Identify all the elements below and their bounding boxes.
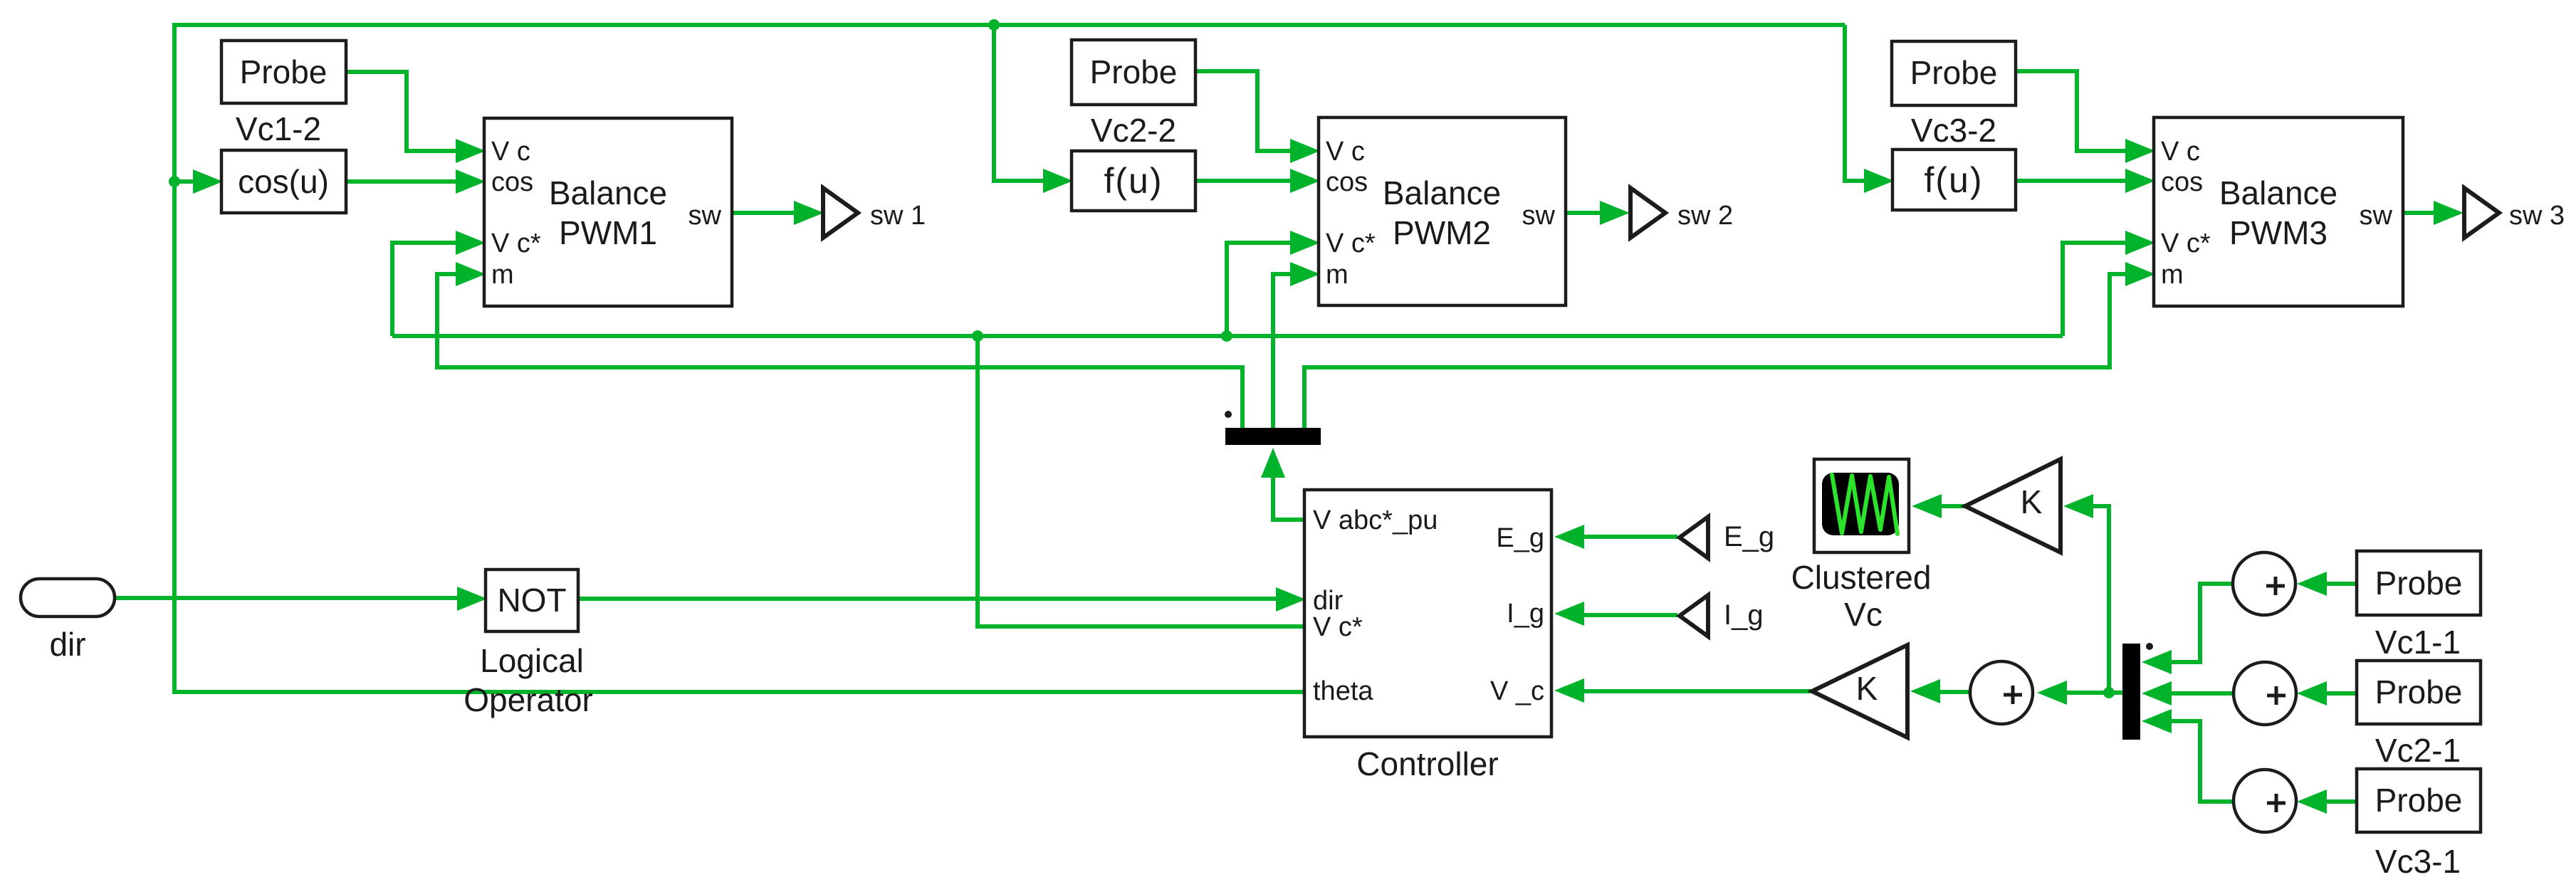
wire Probe Vc1-1 to sum1 — [2323, 582, 2357, 586]
wire K gain to controller V_c — [1581, 689, 1812, 693]
svg-text:f(u): f(u) — [1104, 161, 1163, 201]
wire m net from demux to PWM2 m — [1273, 274, 1294, 428]
probe P3 (Vc3-2) — [1892, 41, 2016, 105]
svg-text:cos(u): cos(u) — [238, 163, 329, 200]
wire theta branch to cos(u) Vc1-2 — [174, 179, 198, 184]
svg-text:Vc3-2: Vc3-2 — [1911, 112, 1996, 149]
wire Vc* net from controller to PWM1/PWM2/PWM3 — [392, 336, 2063, 626]
svg-text:I_g: I_g — [1724, 599, 1764, 631]
svg-text:Vc1-2: Vc1-2 — [236, 110, 321, 147]
svg-text:Vc3-1: Vc3-1 — [2375, 843, 2461, 880]
svg-text:Logical: Logical — [480, 642, 584, 679]
wire Probe Vc2-1 to sum2 — [2323, 691, 2357, 696]
function block f(u)3 — [1892, 149, 2016, 210]
svg-text:V c*: V c* — [2161, 229, 2211, 258]
svg-text:sw 1: sw 1 — [870, 201, 926, 231]
subsystem Controller — [1304, 490, 1551, 737]
svg-text:cos: cos — [2161, 167, 2203, 197]
svg-text:E_g: E_g — [1724, 521, 1774, 552]
wire theta branch to f(u) Vc2-2 — [994, 25, 1047, 181]
node junction Vc* bus / controller drop — [972, 330, 983, 342]
wire Probe Vc3-2 to PWM3 Vc — [2016, 71, 2129, 151]
svg-text:I_g: I_g — [1507, 599, 1544, 629]
input port E_g — [1680, 517, 1708, 558]
input port I_g — [1680, 595, 1708, 636]
scope Clustered Vc — [1814, 459, 1909, 552]
svg-text:Probe: Probe — [2375, 673, 2463, 710]
node junction Vc* bus / PWM2 riser — [1221, 330, 1232, 342]
svg-text:Probe: Probe — [2375, 782, 2463, 819]
node junction theta/f(u)2 — [988, 19, 1000, 31]
svg-text:Probe: Probe — [240, 53, 328, 90]
wire Probe Vc3-1 to sum3 — [2323, 799, 2357, 804]
probe P4 (Vc1-1) — [2357, 551, 2481, 615]
svg-text:NOT: NOT — [497, 582, 566, 619]
svg-text:cos: cos — [1326, 167, 1368, 197]
svg-text:sw 2: sw 2 — [1677, 201, 1733, 231]
svg-text:V c: V c — [2161, 137, 2200, 167]
wire cos(u) to PWM1 cos — [346, 179, 459, 184]
svg-text:f(u): f(u) — [1925, 160, 1984, 200]
function block cos(u) — [221, 150, 346, 213]
svg-text:sw 3: sw 3 — [2509, 201, 2565, 231]
subsystem Balance PWM2 — [1319, 117, 1566, 305]
svg-text:cos: cos — [491, 167, 533, 197]
svg-text:theta: theta — [1313, 676, 1373, 706]
wire PWM3 sw output to sw3 — [2403, 211, 2437, 215]
svg-text:V c: V c — [1326, 137, 1365, 167]
svg-text:V c*: V c* — [1313, 612, 1363, 642]
svg-text:PWM1: PWM1 — [559, 214, 657, 251]
wire m net from demux to PWM1 m — [437, 274, 1242, 428]
svg-text:Vc1-1: Vc1-1 — [2375, 624, 2461, 661]
svg-text:PWM3: PWM3 — [2229, 214, 2328, 251]
probe P6 (Vc3-1) — [2357, 769, 2481, 832]
svg-text:dir: dir — [1313, 586, 1344, 616]
svg-text:K: K — [1856, 670, 1878, 707]
svg-text:Probe: Probe — [1910, 54, 1998, 91]
svg-text:V c*: V c* — [491, 229, 541, 258]
wire K1 output to scope — [1938, 504, 1965, 508]
node tick mark — [2146, 643, 2153, 650]
svg-text:Balance: Balance — [2219, 174, 2337, 211]
scope waveform — [1832, 475, 1897, 534]
wire E_g to controller — [1581, 535, 1677, 539]
logic gate NOT (Logical Operator) — [486, 570, 578, 631]
svg-text:dir: dir — [49, 626, 85, 663]
subsystem Balance PWM1 — [484, 118, 732, 306]
wire theta branch to f(u) Vc3-2 — [1845, 25, 1868, 181]
wire NOT output to controller dir — [578, 597, 1279, 601]
svg-text:sw: sw — [688, 201, 722, 231]
svg-text:Balance: Balance — [1383, 174, 1501, 211]
svg-text:sw: sw — [2360, 201, 2393, 231]
svg-text:V c*: V c* — [1326, 229, 1376, 258]
gain K2 (to controller V_c) — [1812, 645, 1907, 738]
output port sw3 — [2464, 188, 2499, 238]
wire sum2 output to demux2 — [2168, 691, 2234, 696]
probe P1 (Vc1-2) — [221, 41, 346, 103]
sum block S2 — [2234, 662, 2296, 725]
output port sw2 — [1630, 188, 1665, 238]
output port sw1 — [823, 188, 858, 238]
wire sum3 output to demux2 — [2168, 721, 2234, 802]
input port dir (oval) — [21, 579, 115, 616]
svg-text:PWM2: PWM2 — [1393, 214, 1491, 251]
svg-text:Balance: Balance — [549, 174, 667, 211]
gain K1 (to scope) — [1965, 459, 2061, 552]
wire f(u)2 to PWM2 cos — [1195, 179, 1294, 183]
svg-text:E_g: E_g — [1496, 523, 1544, 553]
wire demux2 output to sum — [2063, 691, 2122, 695]
sum block S3 — [2234, 770, 2296, 832]
probe P5 (Vc2-1) — [2357, 661, 2481, 724]
demux bar (Vabc* split) — [1225, 428, 1321, 445]
svg-text:Vc2-1: Vc2-1 — [2375, 732, 2461, 769]
wire theta net: controller theta output, left vertical bus and top bus — [174, 25, 1845, 692]
wire PWM2 sw output to sw2 — [1566, 211, 1603, 215]
wire Probe Vc1-2 to PWM1 Vc — [346, 72, 459, 151]
node tick mark — [1225, 411, 1232, 418]
svg-text:Probe: Probe — [2375, 565, 2463, 602]
svg-text:V _c: V _c — [1490, 676, 1544, 706]
probe P2 (Vc2-2) — [1072, 40, 1195, 105]
svg-text:Clustered: Clustered — [1791, 559, 1932, 596]
wire sum left output to K2 — [1937, 690, 1971, 694]
svg-text:m: m — [1326, 260, 1349, 290]
node junction theta/cos(u) — [169, 176, 180, 187]
wire scope branch riser — [2090, 506, 2109, 693]
wire sum1 output to demux2 — [2168, 584, 2234, 662]
wire I_g to controller — [1581, 613, 1677, 617]
sum block S0 (left) — [1970, 661, 2033, 724]
svg-text:Operator: Operator — [464, 681, 593, 718]
svg-text:K: K — [2021, 483, 2043, 520]
node junction scope branch — [2103, 687, 2115, 698]
svg-text:Probe: Probe — [1090, 53, 1178, 90]
svg-text:sw: sw — [1522, 201, 1556, 231]
svg-text:V abc*_pu: V abc*_pu — [1313, 505, 1438, 535]
svg-text:m: m — [491, 260, 514, 290]
subsystem Balance PWM3 — [2154, 117, 2403, 306]
svg-text:m: m — [2161, 260, 2184, 290]
wire controller Vabc*_pu to demux — [1273, 471, 1304, 520]
wire PWM1 sw output to sw1 — [732, 211, 797, 215]
demux2 bar (cluster sum) — [2122, 644, 2140, 740]
svg-text:Controller: Controller — [1356, 745, 1498, 782]
svg-text:Vc: Vc — [1844, 596, 1883, 633]
svg-text:Vc2-2: Vc2-2 — [1091, 112, 1176, 149]
function block f(u)2 — [1072, 151, 1195, 211]
sum block S1 — [2233, 552, 2295, 615]
wire dir input to NOT — [115, 596, 461, 600]
wire m net from demux to PWM3 m — [1304, 274, 2129, 428]
wire Probe Vc2-2 to PWM2 Vc — [1195, 71, 1294, 151]
wire f(u)3 to PWM3 cos — [2016, 179, 2129, 183]
svg-text:V c: V c — [491, 137, 530, 167]
